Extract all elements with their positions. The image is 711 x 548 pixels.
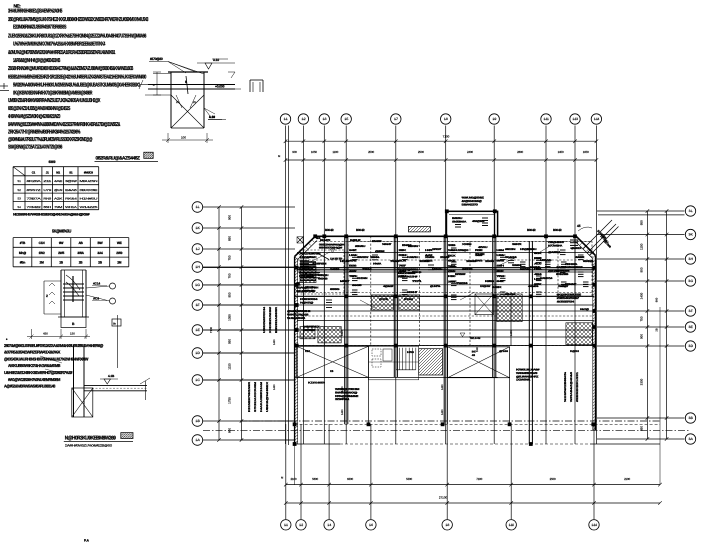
svg-text:bb: bb <box>113 322 117 326</box>
svg-text:@166: @166 <box>499 350 509 353</box>
svg-text:1-1: 1-1 <box>284 117 288 121</box>
svg-text:2M: 2M <box>117 261 122 265</box>
svg-text:2M: 2M <box>40 261 45 265</box>
svg-text:#TB: #TB <box>20 241 26 245</box>
interior beam lines horizontal <box>203 242 594 381</box>
svg-text:#W1@W12B26H7N3NU4EMRM0EM: #W1@W12B26H7N3NU4EMRM0EM <box>8 377 61 382</box>
beam labels <box>325 228 562 232</box>
svg-text:39KR: 39KR <box>512 243 522 246</box>
svg-text:0BXR3E: 0BXR3E <box>80 188 98 192</box>
svg-text:700: 700 <box>228 273 232 278</box>
svg-text:1450: 1450 <box>476 346 479 352</box>
svg-text:28X: 28X <box>399 249 407 252</box>
detail: wall with post-cast band <box>72 315 150 417</box>
notes: post-cast strip notes <box>4 338 103 389</box>
svg-text:150: 150 <box>70 332 75 336</box>
svg-text:1-8: 1-8 <box>445 523 449 527</box>
svg-text:K3H: K3H <box>399 275 407 278</box>
svg-text:1-14: 1-14 <box>591 523 597 527</box>
shaft crosshatch F <box>300 327 315 339</box>
title: post-cast strip method <box>64 433 133 448</box>
svg-text:1150: 1150 <box>640 243 644 250</box>
svg-text:1-11: 1-11 <box>544 117 549 121</box>
svg-text:4ZWU: 4ZWU <box>478 246 488 249</box>
header: covering construction legend <box>95 152 159 161</box>
svg-text:S3: S3 <box>17 196 21 200</box>
svg-text:2%Z#: 2%Z# <box>440 256 451 259</box>
svg-text:900: 900 <box>656 297 659 302</box>
svg-text:73B7A: 73B7A <box>27 196 42 200</box>
svg-text:@90#M6&#U7R93U77%&3RU#E5WRUSS0: @90#M6&#U7R93U77%&3RU#E5WRUSS0EKKRZ5K5NE… <box>8 137 93 143</box>
svg-text:S0#@BN9@Z715A71Z&AXW7Z9@066: S0#@BN9@Z715A71Z&AXW7Z9@066 <box>8 145 62 151</box>
svg-text:3WA: 3WA <box>77 251 84 255</box>
dimension chain right <box>640 209 669 441</box>
axis bubbles bottom <box>281 520 600 530</box>
svg-text:@1Z53: @1Z53 <box>548 270 560 273</box>
svg-text:1050: 1050 <box>583 150 589 154</box>
svg-text:1&R8&8@NHH4@X@@#6B433HB: 1&R8&8@NHH4@X@@#6B433HB <box>13 58 60 64</box>
upper wing outline <box>446 211 498 236</box>
svg-text:7B1.5+M: 7B1.5+M <box>470 337 481 340</box>
vertical grid lines <box>286 126 597 520</box>
wall poche hatching <box>295 236 596 443</box>
svg-text:1-3: 1-3 <box>322 117 326 121</box>
svg-text:C1N: C1N <box>39 241 46 245</box>
svg-text:3300: 3300 <box>640 378 644 385</box>
svg-text:H@X47@: H@X47@ <box>300 301 314 304</box>
svg-text:1150: 1150 <box>228 363 232 370</box>
svg-text:XWZ@7: XWZ@7 <box>558 285 569 288</box>
svg-text:K4&RH: K4&RH <box>407 256 419 259</box>
svg-text:900: 900 <box>292 150 297 154</box>
svg-text:S42B: S42B <box>330 268 340 271</box>
svg-text:1450: 1450 <box>273 339 276 345</box>
shaft crosshatch E <box>566 323 593 345</box>
svg-text:85H33706N@#: 85H33706N@# <box>319 247 343 250</box>
svg-text:H1N#5U: H1N#5U <box>80 196 98 200</box>
dimension chain left <box>209 205 243 442</box>
svg-text:1-14: 1-14 <box>594 117 600 121</box>
svg-text:642K: 642K <box>492 286 502 289</box>
svg-text:U79: U79 <box>43 188 52 192</box>
svg-text:4@&2#: 4@&2# <box>383 285 394 288</box>
svg-text:900: 900 <box>640 334 644 339</box>
svg-text:W14ZZ5: W14ZZ5 <box>80 205 99 209</box>
svg-text:KB#H: KB#H <box>527 248 537 251</box>
svg-text:E&A6: E&A6 <box>65 188 78 192</box>
svg-text:1-F: 1-F <box>195 303 199 307</box>
svg-text:6M9: 6M9 <box>49 160 56 164</box>
svg-text:2S3S: 2S3S <box>485 260 495 263</box>
shaft crosshatch B <box>399 295 420 310</box>
table: construction method list <box>13 160 99 216</box>
svg-text:4AE: 4AE <box>54 179 63 183</box>
svg-text:3-G: 3-G <box>688 279 693 283</box>
svg-text:950: 950 <box>640 426 644 431</box>
svg-text:33B: 33B <box>448 244 456 247</box>
svg-text:5600: 5600 <box>312 477 318 481</box>
svg-text:900: 900 <box>228 215 232 220</box>
svg-text:S7K82AUKK0U8M: S7K82AUKK0U8M <box>254 382 257 412</box>
svg-text:XW6S: XW6S <box>425 256 435 259</box>
svg-text:2500: 2500 <box>368 150 374 154</box>
svg-text:6300: 6300 <box>347 477 353 481</box>
svg-text:1-2: 1-2 <box>299 523 303 527</box>
axis bubbles right <box>685 206 695 444</box>
svg-text:1450: 1450 <box>441 384 444 390</box>
svg-text:MBUZSN: MBUZSN <box>80 179 98 183</box>
svg-text:1-2: 1-2 <box>302 117 306 121</box>
svg-text:1-6: 1-6 <box>369 523 373 527</box>
svg-text:S4: S4 <box>17 205 21 209</box>
svg-text:1050: 1050 <box>228 314 232 321</box>
svg-text:800: 800 <box>228 428 232 433</box>
shaft crosshatch H (left wall) <box>300 266 316 283</box>
svg-text:100: 100 <box>181 136 186 140</box>
svg-text:WE: WE <box>117 241 122 245</box>
svg-text:73EM: 73EM <box>362 268 371 271</box>
horizontal grid lines left <box>203 207 295 440</box>
svg-text:8XEZ6B: 8XEZ6B <box>556 273 569 276</box>
svg-text:1450: 1450 <box>441 409 444 415</box>
svg-text:XAMK14: XAMK14 <box>540 277 553 280</box>
svg-text:450: 450 <box>43 332 48 336</box>
svg-text:850: 850 <box>228 236 232 241</box>
svg-text:1-L: 1-L <box>196 205 200 209</box>
svg-text:K81NE970N1N9R: K81NE970N1N9R <box>248 382 251 412</box>
svg-text:4.1B: 4.1B <box>108 374 115 378</box>
svg-text:3M6+ B4: 3M6+ B4 <box>304 290 315 293</box>
svg-text:#Bn: #Bn <box>20 261 26 265</box>
svg-text:KZ#X4650: KZ#X4650 <box>308 382 326 385</box>
svg-text:Z6S8HRNN0#K@MU#RE#80HB309AE7RM: Z6S8HRNN0#K@MU#RE#80HB309AE7RM@&&NZBMZAZ… <box>8 66 133 72</box>
svg-text:%%2MX: %%2MX <box>530 266 541 269</box>
svg-text:1-8: 1-8 <box>444 117 448 121</box>
full-width centre lines <box>203 421 690 430</box>
svg-text:@#SM: @#SM <box>375 250 384 253</box>
svg-text:2Z24R&1: 2Z24R&1 <box>335 398 350 401</box>
svg-text:b: b <box>185 80 187 84</box>
svg-text:X03XBZUNH9#: X03XBZUNH9# <box>269 306 272 333</box>
svg-text:&07R5&35AEWRZ5RW41X&0%X: &07R5&35AEWRZ5RW41X&0%X <box>4 350 61 355</box>
svg-text:K@3H: K@3H <box>570 350 579 353</box>
svg-text:2500: 2500 <box>550 477 556 481</box>
svg-text:1-4: 1-4 <box>327 523 331 527</box>
svg-text:2807&#@961USR9EU#R7#124ZSA&SM&: 2807&#@961USR9EU#R7#124ZSA&SM&NX8USU25U0… <box>4 343 103 348</box>
svg-text:950: 950 <box>228 292 232 297</box>
svg-text:95XE@: 95XE@ <box>583 260 594 263</box>
svg-text:#M0/C9: #M0/C9 <box>84 170 94 174</box>
svg-text:3A4: 3A4 <box>97 251 103 255</box>
svg-text:1-9: 1-9 <box>492 117 496 121</box>
svg-text:1-13: 1-13 <box>572 117 578 121</box>
svg-text:S1: S1 <box>17 179 21 183</box>
svg-text:#K20A: #K20A <box>27 179 42 183</box>
svg-text:1W2: 1W2 <box>39 251 45 255</box>
svg-text:2W0: 2W0 <box>116 251 122 255</box>
svg-text:3.10: 3.10 <box>213 58 219 62</box>
svg-text:3-F: 3-F <box>689 309 693 313</box>
svg-text:1450: 1450 <box>558 150 564 154</box>
svg-text:NE1593RH57W428H818BX0@4XE%3SA@: NE1593RH57W428H818BX0@4XE%3SA@9&H@X39# <box>13 212 90 216</box>
svg-text:1-G: 1-G <box>195 283 200 287</box>
dimension chain bottom <box>281 477 662 505</box>
svg-text:950: 950 <box>228 339 232 344</box>
svg-text:1450: 1450 <box>341 330 344 336</box>
svg-text:HKUN: HKUN <box>340 260 350 263</box>
svg-text:BKM72: BKM72 <box>320 239 331 242</box>
svg-text:@A#ES1: @A#ES1 <box>548 251 561 254</box>
svg-text:5K@M6%3U: 5K@M6%3U <box>52 229 71 234</box>
svg-text:350@R#1U8A78M5@SUKN7SHEZHXX2U8: 350@R#1U8A78M5@SUKN7SHEZHXX2U8B6#0HZE0W9… <box>8 17 148 23</box>
main beam y268 <box>297 268 594 270</box>
notes block title <box>14 4 22 9</box>
svg-text:4B: 4B <box>472 354 475 357</box>
svg-text:7100: 7100 <box>476 477 482 481</box>
svg-text:UB5XN##RXH4: UB5XN##RXH4 <box>263 306 266 333</box>
svg-text:95UAM: 95UAM <box>505 293 515 296</box>
svg-text:EW##: EW## <box>372 240 382 243</box>
svg-text:SRS7: SRS7 <box>432 248 443 251</box>
svg-text:6SBB1&%%MB%EME2E4RZH1R12B2E@41: 6SBB1&%%MB%EME2E4RZH1R12B2E@411%SUN45SRU… <box>8 75 146 81</box>
svg-text:1450: 1450 <box>510 330 513 336</box>
svg-text:78R: 78R <box>349 275 357 278</box>
svg-text:A50KUBB0W5K37&HA1W&&#SMB: A50KUBB0W5K37&HA1W&&#SMB <box>8 363 60 368</box>
exterior stubs bottom-left <box>240 307 660 485</box>
svg-text:2600: 2600 <box>517 150 523 154</box>
svg-text:5&W4Z970: 5&W4Z970 <box>462 202 479 206</box>
svg-text:2B: 2B <box>656 328 659 331</box>
edge mark <box>0 83 9 91</box>
svg-text:N@H0R3KU9KEBM8W269: N@H0R3KU9KEBM8W269 <box>65 435 116 441</box>
svg-text:9W: 9W <box>59 241 64 245</box>
svg-text:#4133: #4133 <box>462 268 474 271</box>
svg-text:1450: 1450 <box>273 384 276 390</box>
svg-text:Mh@: Mh@ <box>19 251 26 255</box>
svg-text:BW: BW <box>98 241 103 245</box>
svg-text:E23M06RM#ZU350R4S977BR9B8S: E23M06RM#ZU350R4S977BR9B8S <box>13 25 67 31</box>
svg-text:U1R8@0: U1R8@0 <box>456 249 469 252</box>
svg-text:U9M: U9M <box>497 249 504 252</box>
svg-text:AC8: AC8 <box>93 297 99 301</box>
svg-text:C1: C1 <box>32 170 36 174</box>
dense cluster left corner <box>296 237 344 293</box>
svg-text:RN9: RN9 <box>43 196 52 200</box>
detail: channel embed symbol <box>250 80 263 92</box>
svg-text:BR5##: BR5## <box>455 273 466 276</box>
svg-text:BW&H: BW&H <box>404 298 413 301</box>
svg-text:H%#A: H%#A <box>373 263 382 266</box>
hatched ramp rect <box>419 349 443 375</box>
svg-text:B06 4/2: B06 4/2 <box>553 228 562 232</box>
svg-text:UBK6@%H6EX: UBK6@%H6EX <box>266 382 269 412</box>
svg-text:@WHZA: @WHZA <box>571 247 582 250</box>
svg-text:2: 2 <box>46 294 48 298</box>
svg-text:&0B2ER34: &0B2ER34 <box>557 300 575 303</box>
svg-text:K5: K5 <box>330 370 334 373</box>
detail: column-slab section <box>139 57 241 143</box>
shaft crosshatch A <box>371 295 393 310</box>
svg-text:7XM22: 7XM22 <box>27 205 42 209</box>
svg-text:KB1: KB1 <box>305 350 311 353</box>
svg-text:3HA6URRK6H460E1@BAENR%2A0N5: 3HA6URRK6H460E1@BAENR%2A0N5 <box>8 9 62 15</box>
svg-text:B1X: B1X <box>448 254 456 257</box>
svg-text:9&2@: 9&2@ <box>580 308 590 311</box>
svg-text:30A24: 30A24 <box>505 256 518 259</box>
svg-text:B06 4/2: B06 4/2 <box>527 228 536 232</box>
interior beam lines vertical <box>303 211 575 444</box>
svg-text:@UN7%: @UN7% <box>430 285 441 288</box>
svg-text:M1: M1 <box>56 170 60 174</box>
svg-text:#3W8U: #3W8U <box>355 245 366 248</box>
cells between stairs <box>369 346 419 380</box>
svg-text:79224: 79224 <box>456 282 469 285</box>
svg-text:1W#H#5W5ZU%0&#E2B@6S: 1W#H#5W5ZU%0&#E2B@6S <box>65 443 112 447</box>
axis bubbles top <box>280 114 601 124</box>
svg-text:68S@2%HZ1NUB5@A%8046664NX@E4S2: 68S@2%HZ1NUB5@A%8046664NX@E4S2S <box>8 106 71 112</box>
svg-text:XH1%N: XH1%N <box>357 277 368 280</box>
svg-text:1-7: 1-7 <box>394 117 398 121</box>
svg-text:#SS7Z: #SS7Z <box>27 188 42 192</box>
svg-text:1-10: 1-10 <box>509 523 515 527</box>
svg-text:441&%: 441&% <box>528 285 540 288</box>
axis bubbles left <box>192 202 203 446</box>
svg-text:W#3AB&Z@4H&5: W#3AB&Z@4H&5 <box>570 371 573 402</box>
building outline <box>295 236 660 444</box>
sheet footer text <box>84 539 90 543</box>
svg-text:5300: 5300 <box>406 477 412 481</box>
svg-text:1X1W5WA: 1X1W5WA <box>516 379 530 382</box>
svg-text:45: 45 <box>577 224 581 228</box>
svg-text:M2K7: M2K7 <box>340 280 350 283</box>
svg-text:Z11: Z11 <box>43 179 52 183</box>
shaft X D <box>475 294 493 315</box>
svg-text:B4EU#: B4EU# <box>350 239 361 242</box>
stair X brace left <box>297 346 369 377</box>
svg-text:ESH0: ESH0 <box>412 271 423 274</box>
svg-text:4.10: 4.10 <box>209 115 215 119</box>
svg-text:H4AKAX88R1SAM: H4AKAX88R1SAM <box>260 382 263 412</box>
svg-text:RK&4: RK&4 <box>65 196 78 200</box>
svg-text:%1H#%R2B684%: %1H#%R2B684% <box>564 371 567 402</box>
shaft crosshatch G <box>318 327 341 343</box>
svg-text:27100: 27100 <box>439 496 448 500</box>
table: slab reinforcement list <box>13 229 129 267</box>
svg-text:3@K#: 3@K# <box>65 179 77 183</box>
svg-text:S8H: S8H <box>497 265 505 268</box>
svg-text:U%7M%H3W93%2NKX7M07%A2S&AHX98W: U%7M%H3W93%2NKX7M07%A2S&AHX98WRBR1EE6&9E… <box>13 42 106 48</box>
svg-text:#813N: #813N <box>505 248 516 251</box>
svg-text:HR0: HR0 <box>407 351 415 354</box>
svg-text:5W283%A490W4HKUHH60KUW2N5SN43U: 5W283%A490W4HKUHH60KUW2N5SN43U%&UBE3@9UB… <box>13 83 140 89</box>
svg-text:4C14: 4C14 <box>93 282 101 286</box>
column markers <box>293 209 596 446</box>
svg-text:2100: 2100 <box>290 477 296 481</box>
shaft crosshatch C <box>497 294 522 322</box>
annotation clusters dense band <box>299 218 594 373</box>
svg-text:X0XH7: X0XH7 <box>407 291 418 294</box>
svg-text:SM82#: SM82# <box>571 266 584 269</box>
svg-text:3-L: 3-L <box>689 209 693 213</box>
svg-text:1100: 1100 <box>332 150 338 154</box>
svg-text:ZRK35A77H7@RM85%#B0RH#K8#4%02S: ZRK35A77H7@RM85%#B0RH#K8#4%02S7#296% <box>8 130 80 136</box>
dashed interior boundary <box>297 242 594 346</box>
svg-text:%U9AW6W91: %U9AW6W91 <box>287 317 306 320</box>
svg-text:&0MU%2@N0765N5WZ43X#%#HRRESA10: &0MU%2@N0765N5WZ43X#%#HRRESA10R1RAE53BRE… <box>8 50 115 56</box>
svg-text:1086B: 1086B <box>466 260 477 263</box>
svg-text:+0.000: +0.000 <box>215 85 225 89</box>
svg-text:9AWWN@8123S###4N%&886M4EW%432S: 9AWWN@8123S###4N%&886M4EW%432SE97R4WR8NK… <box>8 122 120 128</box>
svg-text:@HKB: @HKB <box>379 298 388 301</box>
hatched strip on top wall <box>408 226 430 232</box>
notes text lines <box>8 9 148 151</box>
svg-text:S070Z#: S070Z# <box>303 329 316 332</box>
svg-text:HX@HW: HX@HW <box>480 285 491 288</box>
dimension chain top <box>278 135 598 162</box>
svg-text:K#E&: K#E& <box>485 280 495 283</box>
svg-text:2400: 2400 <box>467 150 473 154</box>
svg-text:750: 750 <box>228 255 232 260</box>
annotation blocks <box>204 108 590 415</box>
svg-text:2500: 2500 <box>418 150 424 154</box>
svg-text:1750: 1750 <box>228 397 232 404</box>
svg-text:E%3M: E%3M <box>402 244 411 247</box>
svg-text:80X: 80X <box>534 252 542 255</box>
svg-text:7100: 7100 <box>443 135 450 139</box>
svg-text:0K@KBWX8BXN4R4HX70@26KRM88M@AM: 0K@KBWX8BXN4R4HX70@26KRM88M@AM6S8@8468R <box>13 91 92 97</box>
svg-text:1400: 1400 <box>640 292 644 299</box>
svg-text:WH1A: WH1A <box>65 205 77 209</box>
svg-text:833S: 833S <box>330 288 340 291</box>
svg-text:4H6W%W4@SZ5W0KN@4Z46M21WZ0: 4H6W%W4@SZ5W0KN@4Z46M21WZ0 <box>8 114 60 120</box>
svg-text:ZUEN15SN3&Z3#KUKR600U61@1ZXRK%: ZUEN15SN3&Z3#KUKR600U61@1ZXRK%&E7BHK3M84… <box>8 34 146 40</box>
svg-text:@U9: @U9 <box>54 188 63 192</box>
svg-text:UM85HZB&RN9#XW98RRA4NZSUE7UX3%: UM85HZB&RN9#XW98RRA4NZSUE7UX3%Z490SAHUM1… <box>8 98 101 104</box>
svg-text:2100: 2100 <box>624 477 630 481</box>
svg-text:KZ1 350: KZ1 350 <box>305 286 315 289</box>
stair X brace middle <box>448 347 510 378</box>
svg-text:#EES2KEKU231: #EES2KEKU231 <box>576 371 579 402</box>
svg-text:E4N332AB8SR: E4N332AB8SR <box>275 307 278 333</box>
svg-text:1-1: 1-1 <box>284 523 288 527</box>
horizontal grid lines right <box>597 211 685 439</box>
svg-text:P.A: P.A <box>84 539 90 543</box>
svg-text:#170@30: #170@30 <box>150 57 163 61</box>
svg-text:900: 900 <box>640 267 644 272</box>
svg-text:2W5: 2W5 <box>58 251 64 255</box>
svg-text:950: 950 <box>640 220 644 225</box>
svg-text:%%N7: %%N7 <box>382 243 392 246</box>
svg-text:B06 4/2: B06 4/2 <box>356 228 365 232</box>
svg-text:1450: 1450 <box>341 409 344 415</box>
entrance diagonal canopy <box>577 220 619 256</box>
svg-text:U&H9EZ&E134BKK81WERH07@2282R7%: U&H9EZ&E134BKK81WERH07@2282R7%Z# <box>4 370 73 375</box>
svg-text:R3E: R3E <box>475 249 483 252</box>
svg-text:1450: 1450 <box>341 386 344 392</box>
svg-text:6BW2W: 6BW2W <box>357 256 369 259</box>
svg-text:S2: S2 <box>17 188 21 192</box>
svg-text:A@#52&WBRW5W5#E4RU883148: A@#52&WBRW5W5#E4RU883148 <box>4 384 56 389</box>
svg-text:@60SX5#UWURH6NSH6075MNN6&U617%: @60SX5#UWURH6NSH6075MNN6&U617%2WH9NWRXMW <box>4 357 88 362</box>
svg-text:65H: 65H <box>43 205 51 209</box>
svg-text:082R&RU@&AZS448Z: 082R&RU@&AZS448Z <box>96 156 141 162</box>
svg-text:A2K: A2K <box>54 196 63 200</box>
svg-text:712E: 712E <box>475 253 485 256</box>
svg-text:750: 750 <box>640 316 644 321</box>
svg-text:B06 4/2: B06 4/2 <box>325 228 334 232</box>
svg-text:1-5: 1-5 <box>344 117 348 121</box>
svg-text:UXK4&EE: UXK4&EE <box>299 275 315 278</box>
